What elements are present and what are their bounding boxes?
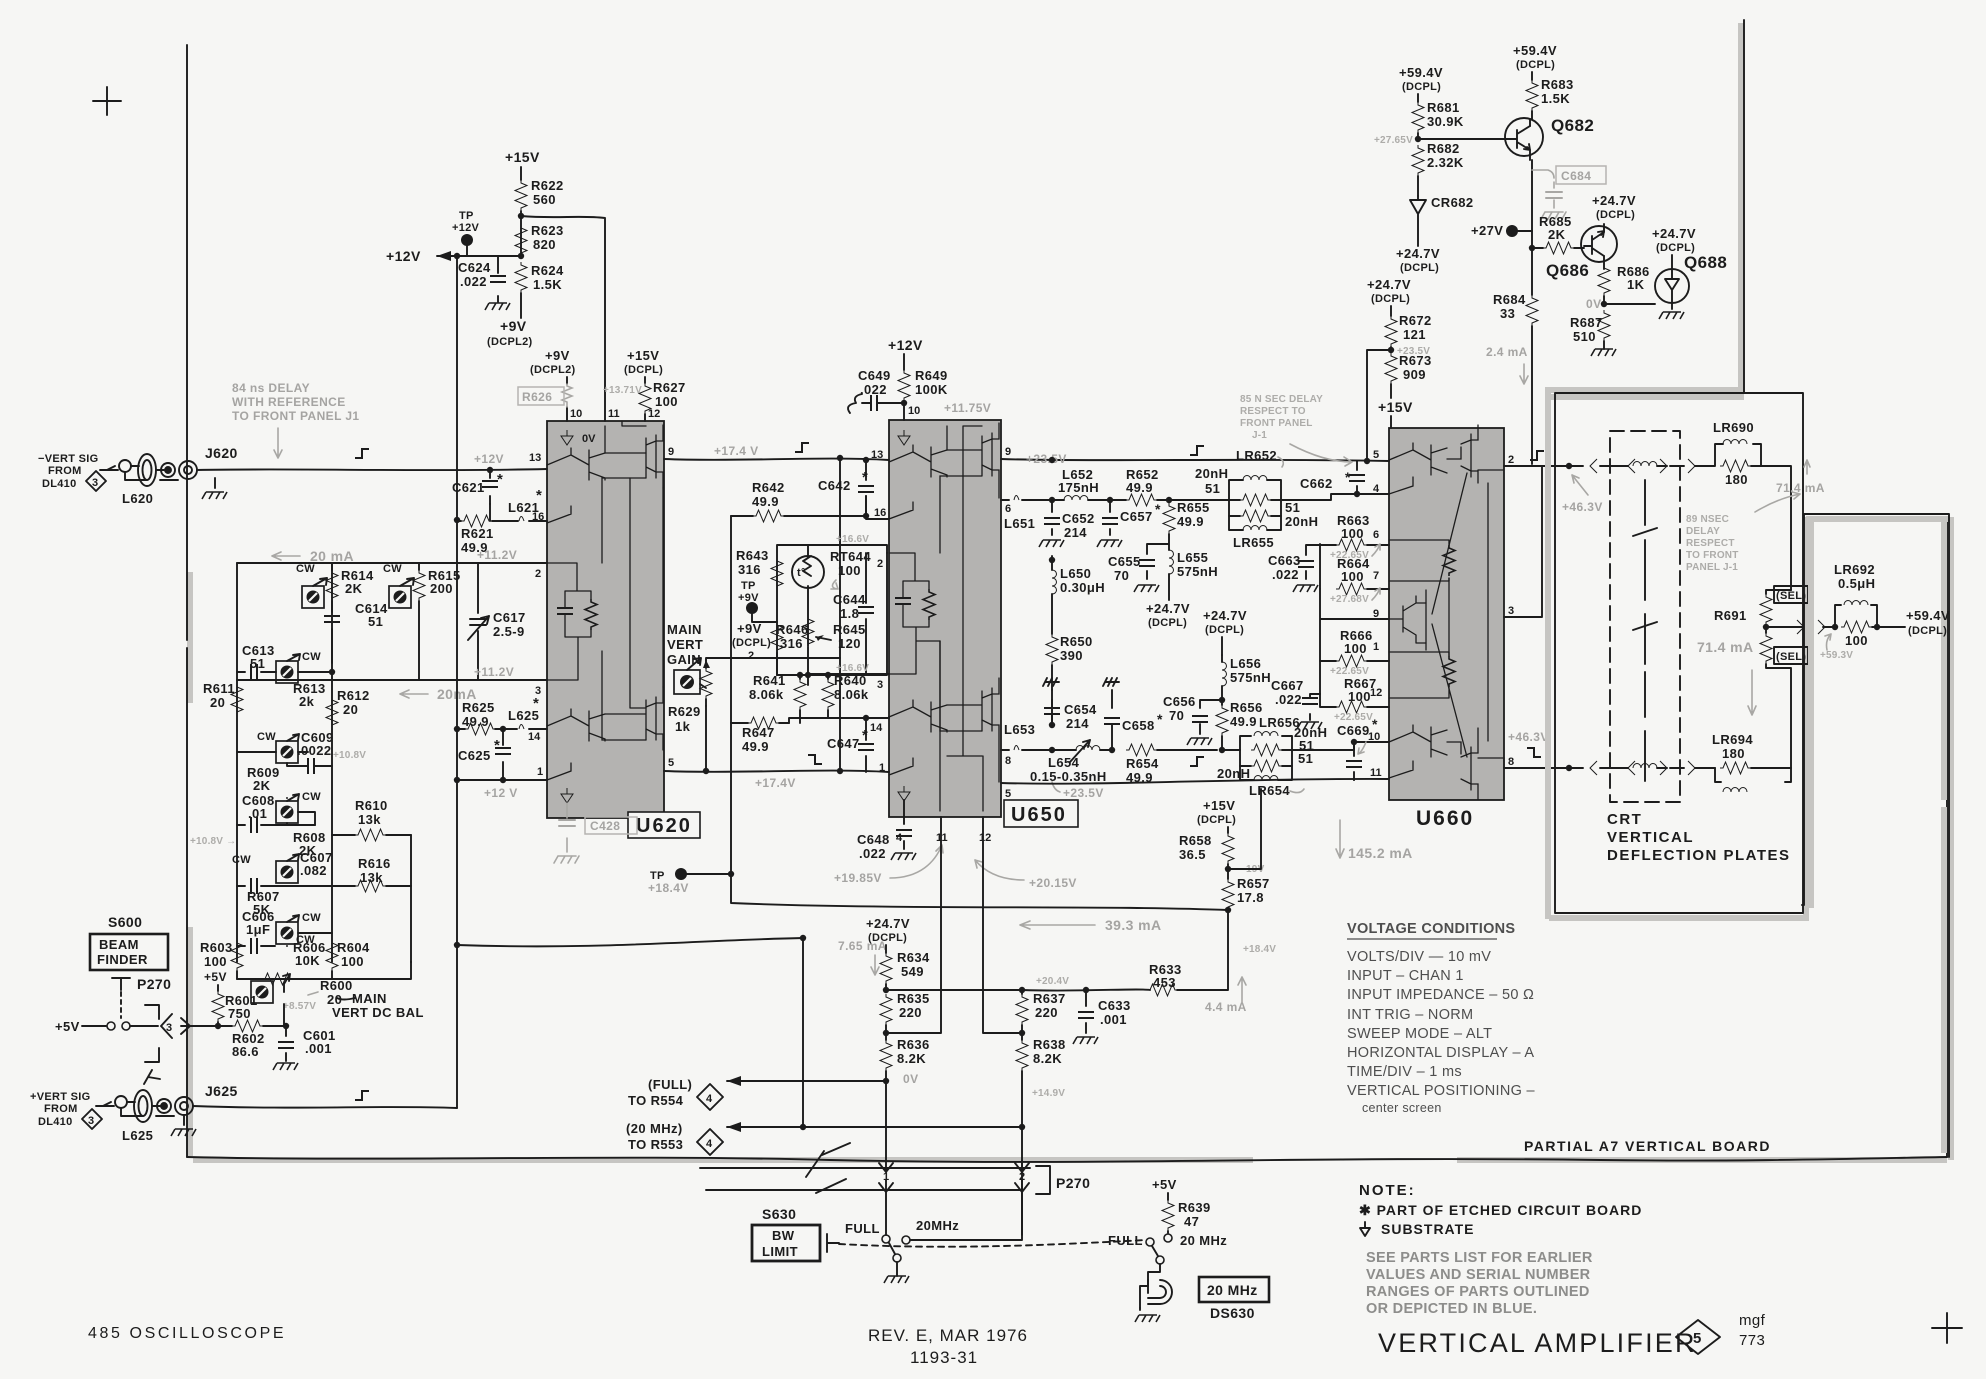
- svg-text:NOTE:: NOTE:: [1359, 1182, 1416, 1199]
- svg-text:+5V: +5V: [55, 1019, 80, 1034]
- svg-text:560: 560: [533, 192, 556, 207]
- svg-text:L625: L625: [122, 1128, 153, 1143]
- svg-text:(DCPL): (DCPL): [1908, 625, 1947, 637]
- right box shadow: [1809, 519, 1946, 1150]
- svg-text:8.06k: 8.06k: [749, 687, 784, 702]
- svg-text:L651: L651: [1004, 516, 1035, 531]
- switch actuator T: [112, 978, 130, 990]
- op-amp U620 body: [547, 421, 664, 818]
- svg-text:+59.4V: +59.4V: [1513, 43, 1557, 58]
- svg-text:R643: R643: [736, 548, 769, 563]
- junction: [1109, 747, 1115, 753]
- svg-text:DELAY: DELAY: [1686, 526, 1720, 537]
- svg-text:200: 200: [430, 581, 453, 596]
- svg-text:J620: J620: [205, 445, 238, 461]
- junction: [500, 777, 506, 783]
- svg-text:PARTIAL A7 VERTICAL BOARD: PARTIAL A7 VERTICAL BOARD: [1524, 1138, 1771, 1154]
- svg-text:CW: CW: [302, 912, 321, 924]
- wire R624 to +9V: [520, 293, 522, 318]
- op-amp U660 body: [1389, 425, 1504, 800]
- svg-text:11: 11: [1370, 767, 1382, 779]
- transistor Q686: [1581, 224, 1617, 269]
- trimmer R614: [302, 586, 324, 608]
- svg-text:.001: .001: [305, 1041, 332, 1056]
- svg-text:+46.3V: +46.3V: [1562, 500, 1603, 514]
- U660 bottom input transistor: [1389, 725, 1447, 778]
- wire from R616/R610 rail to bottom: [410, 961, 412, 963]
- svg-text:VERTICAL: VERTICAL: [1607, 829, 1694, 846]
- wire 24.7 to R634: [885, 945, 887, 953]
- svg-text:20nH: 20nH: [1195, 466, 1228, 481]
- U650 label: [1004, 800, 1078, 827]
- svg-text:+24.7V: +24.7V: [1367, 277, 1411, 292]
- svg-text:51: 51: [1205, 481, 1220, 496]
- BEAM FINDER box: [90, 934, 168, 970]
- svg-text:DL410: DL410: [38, 1116, 73, 1128]
- C684 gray cap: [1532, 170, 1566, 219]
- svg-text:RESPECT TO: RESPECT TO: [1240, 406, 1306, 417]
- svg-text:5: 5: [1005, 788, 1011, 800]
- svg-text:2: 2: [1019, 1171, 1025, 1183]
- junction: [1763, 624, 1769, 630]
- svg-text:0.15-0.35nH: 0.15-0.35nH: [1030, 769, 1107, 784]
- junction on pin9 wire: [837, 455, 843, 461]
- U650 internal middle RC: [889, 553, 929, 598]
- ground under C624: [485, 303, 510, 310]
- junction: [1601, 301, 1607, 307]
- svg-text:+10.8V: +10.8V: [333, 750, 366, 761]
- svg-text:*: *: [494, 737, 500, 754]
- resistor R623: [515, 225, 527, 256]
- svg-text:4: 4: [706, 1093, 713, 1105]
- svg-text:175nH: 175nH: [1058, 480, 1099, 495]
- svg-text:R657: R657: [1237, 876, 1270, 891]
- U620 internal RC middle: [547, 563, 591, 608]
- svg-text:2K: 2K: [1548, 227, 1566, 242]
- svg-text:(DCPL): (DCPL): [1205, 624, 1244, 636]
- svg-text:R656: R656: [1230, 700, 1263, 715]
- junction: [837, 768, 843, 774]
- L650 0.30uH vertical: [1049, 557, 1055, 563]
- svg-text:5: 5: [1373, 449, 1379, 461]
- step at pin2: [1530, 451, 1544, 460]
- gray capacitor C428 under U620: [554, 803, 579, 863]
- svg-text:C654: C654: [1064, 702, 1097, 717]
- junction: [901, 400, 907, 406]
- svg-text:84 ns DELAY: 84 ns DELAY: [232, 381, 310, 395]
- svg-text:+23.5V: +23.5V: [1026, 452, 1067, 466]
- svg-text:4: 4: [706, 1138, 713, 1150]
- svg-text:DS630: DS630: [1210, 1305, 1255, 1321]
- wire U660 pin8 to CRT row: [1504, 767, 1569, 769]
- top plate inductor: [1633, 462, 1657, 467]
- U620 pin numbers: [528, 408, 674, 778]
- step waveform mid top: [795, 443, 809, 452]
- svg-text:85 N SEC DELAY: 85 N SEC DELAY: [1240, 394, 1323, 405]
- svg-text:316: 316: [780, 636, 803, 651]
- R629 wires to pin9/pin5 rail: [706, 658, 840, 771]
- svg-text:51: 51: [1298, 751, 1313, 766]
- svg-text:145.2 mA: 145.2 mA: [1348, 845, 1413, 861]
- svg-text:PANEL J-1: PANEL J-1: [1686, 562, 1738, 573]
- wire C601 node up right: [285, 1025, 287, 1027]
- U660 pin numbers: [1368, 449, 1514, 779]
- wire +15V to R622: [520, 167, 522, 180]
- svg-text:+22.65V: +22.65V: [1334, 712, 1373, 723]
- svg-text:C617: C617: [493, 610, 526, 625]
- svg-text:+20.4V: +20.4V: [1036, 976, 1069, 987]
- step symbol top: [1190, 446, 1204, 455]
- svg-text:8.2K: 8.2K: [897, 1051, 926, 1066]
- svg-text:+19.85V: +19.85V: [834, 871, 882, 885]
- svg-text:TIME/DIV – 1 ms: TIME/DIV – 1 ms: [1347, 1064, 1462, 1080]
- svg-text:17.8: 17.8: [1237, 890, 1264, 905]
- svg-text:2K: 2K: [345, 581, 363, 596]
- svg-text:CW: CW: [383, 563, 402, 575]
- J620 coax jack: [179, 461, 197, 479]
- Q682 emitter down rail: [1531, 160, 1533, 464]
- U620 internal transistor Q-in-top: [547, 448, 605, 523]
- svg-text:20 mA: 20 mA: [310, 548, 354, 564]
- junction pin9 wire at rail: [1049, 457, 1055, 463]
- dashed link to switch: [120, 992, 122, 1018]
- svg-text:9: 9: [1005, 446, 1011, 458]
- svg-text:(DCPL2): (DCPL2): [487, 336, 533, 348]
- LR655 second combo below: [1229, 500, 1281, 530]
- svg-text:+46.3V: +46.3V: [1508, 730, 1549, 744]
- svg-text:R623: R623: [531, 223, 564, 238]
- svg-text:+17.4V: +17.4V: [755, 776, 796, 790]
- svg-text:R611: R611: [203, 681, 235, 696]
- svg-text:0V: 0V: [1586, 297, 1601, 311]
- svg-text:4.4 mA: 4.4 mA: [1205, 1000, 1247, 1014]
- svg-text:L620: L620: [122, 491, 153, 506]
- svg-text:R654: R654: [1126, 756, 1159, 771]
- svg-text:LR655: LR655: [1233, 535, 1274, 550]
- wire pin11 down to R635/R636 node: [886, 817, 941, 1033]
- svg-text:214: 214: [1064, 525, 1087, 540]
- right box outline: [1802, 514, 1949, 1157]
- svg-text:L656: L656: [1230, 656, 1261, 671]
- junction: [825, 672, 831, 678]
- U650 internal bottom transistors: [889, 700, 947, 775]
- svg-text:LR690: LR690: [1713, 420, 1754, 435]
- svg-text:+5V: +5V: [204, 970, 227, 984]
- svg-text:R637: R637: [1033, 991, 1066, 1006]
- svg-text:L653: L653: [1004, 722, 1035, 737]
- registration cross bottom-right: [1932, 1313, 1962, 1343]
- svg-text:14: 14: [870, 722, 883, 734]
- svg-text:0V: 0V: [582, 433, 596, 445]
- U660 input stage top: [1389, 443, 1447, 494]
- svg-text:180: 180: [1725, 472, 1748, 487]
- svg-text:J-1: J-1: [1252, 430, 1267, 441]
- arrow into L625 input: [96, 1102, 114, 1106]
- svg-text:BW: BW: [772, 1228, 795, 1243]
- svg-text:+16.6V: +16.6V: [836, 534, 869, 545]
- junction: [1364, 458, 1370, 464]
- svg-text:CW: CW: [302, 651, 321, 663]
- svg-text:C624: C624: [458, 260, 491, 275]
- svg-text:575nH: 575nH: [1230, 670, 1271, 685]
- J625 wire to +12V rail: [193, 1106, 457, 1108]
- step waveform near J620: [355, 449, 369, 458]
- junction: [1388, 347, 1394, 353]
- svg-text:FRONT PANEL: FRONT PANEL: [1240, 418, 1313, 429]
- svg-text:+12V: +12V: [452, 222, 480, 234]
- svg-text:INPUT – CHAN 1: INPUT – CHAN 1: [1347, 968, 1464, 984]
- +23.5V gray under U650 pin5: [1052, 782, 1060, 792]
- junction: [1529, 245, 1535, 251]
- svg-text:FULL: FULL: [845, 1221, 880, 1236]
- svg-text:SWEEP MODE – ALT: SWEEP MODE – ALT: [1347, 1026, 1492, 1042]
- svg-text:C633: C633: [1098, 998, 1131, 1013]
- svg-text:TP: TP: [741, 580, 756, 592]
- svg-text:9: 9: [668, 446, 674, 458]
- U650 internal top right transistor pair: [982, 423, 999, 498]
- svg-text:2.32K: 2.32K: [1427, 155, 1464, 170]
- svg-text:TO R553: TO R553: [628, 1137, 683, 1152]
- svg-text:20MHz: 20MHz: [916, 1218, 959, 1233]
- U660 internal resistor pin6-pin7: [1389, 540, 1449, 581]
- svg-text:VERT: VERT: [667, 637, 703, 652]
- svg-text:8.2K: 8.2K: [1033, 1051, 1062, 1066]
- wire LR654 to C669 and pin10: [1292, 742, 1389, 750]
- wire U650 pin9 to U660 pin5: [1001, 459, 1389, 461]
- svg-text:5: 5: [668, 757, 674, 769]
- svg-text:+59.3V: +59.3V: [1820, 650, 1853, 661]
- svg-text:+17.4 V: +17.4 V: [714, 444, 759, 458]
- svg-text:R636: R636: [897, 1037, 930, 1052]
- wire U620 pin9 to U650 pin13: [664, 459, 889, 460]
- C652 214 shunt: [1049, 497, 1055, 503]
- svg-text:1.5K: 1.5K: [533, 277, 562, 292]
- registration cross top-left: [93, 87, 121, 115]
- U620 internal bottom transistors: [547, 709, 605, 780]
- svg-text:FROM: FROM: [44, 1103, 78, 1115]
- svg-text:R612: R612: [337, 688, 370, 703]
- svg-text:*: *: [1155, 501, 1161, 517]
- svg-text:FULL: FULL: [1108, 1233, 1143, 1248]
- node under R623: [518, 253, 524, 259]
- svg-text:4: 4: [896, 832, 903, 844]
- svg-text:+15V: +15V: [1203, 798, 1235, 813]
- svg-text:VERT DC BAL: VERT DC BAL: [332, 1005, 424, 1020]
- svg-text:+20.15V: +20.15V: [1029, 876, 1077, 890]
- input attenuator L620 (ferrite): [119, 454, 178, 486]
- svg-text:+15V: +15V: [1378, 399, 1413, 415]
- svg-text:R600: R600: [320, 978, 353, 993]
- svg-text:49.9: 49.9: [752, 494, 779, 509]
- svg-text:549: 549: [901, 964, 924, 979]
- svg-text:+24.7V: +24.7V: [1396, 246, 1440, 261]
- svg-text:390: 390: [1060, 648, 1083, 663]
- J625 coax jack: [175, 1097, 193, 1115]
- svg-text:R645: R645: [833, 622, 866, 637]
- svg-text:13k: 13k: [358, 812, 381, 827]
- svg-text:C663: C663: [1268, 553, 1301, 568]
- junction: [805, 672, 811, 678]
- svg-text:(DCPL): (DCPL): [1400, 262, 1439, 274]
- svg-text:C648: C648: [857, 832, 890, 847]
- svg-text:U620: U620: [636, 815, 692, 837]
- svg-text:100: 100: [655, 394, 678, 409]
- svg-text:R626: R626: [522, 390, 552, 404]
- svg-text:+12V: +12V: [386, 248, 421, 264]
- svg-text:30.9K: 30.9K: [1427, 114, 1464, 129]
- svg-text:C642: C642: [818, 478, 851, 493]
- U650 pin 10 substrate: [898, 430, 910, 445]
- pin2 wire: [237, 562, 547, 564]
- svg-text:C662: C662: [1300, 476, 1333, 491]
- svg-text:R650: R650: [1060, 634, 1093, 649]
- wire R622 to node: [520, 211, 522, 256]
- svg-text:CW: CW: [296, 563, 315, 575]
- svg-text:Q688: Q688: [1684, 253, 1727, 272]
- node R622/R623: [518, 213, 524, 219]
- svg-text:2.5-9: 2.5-9: [493, 624, 525, 639]
- svg-text:R655: R655: [1177, 500, 1210, 515]
- svg-text:R634: R634: [897, 950, 930, 965]
- SEE PARTS LIST gray: [1366, 1250, 1593, 1317]
- transistor Q682: [1505, 118, 1543, 160]
- junction: [728, 871, 734, 877]
- svg-text:R622: R622: [531, 178, 564, 193]
- svg-text:L655: L655: [1177, 550, 1208, 565]
- R629 pot resistor: [700, 668, 712, 699]
- svg-text:51: 51: [368, 614, 383, 629]
- svg-text:S600: S600: [108, 914, 142, 930]
- svg-text:*: *: [1157, 711, 1163, 727]
- resistor R624: [515, 262, 527, 293]
- svg-text:(DCPL): (DCPL): [732, 637, 771, 649]
- svg-text:INPUT IMPEDANCE – 50 Ω: INPUT IMPEDANCE – 50 Ω: [1347, 987, 1534, 1003]
- L656 575nH vertical: [1219, 697, 1225, 703]
- U620 substrate pin 4: [561, 788, 573, 803]
- L654 variable inductor: [1049, 747, 1055, 753]
- svg-text:C644: C644: [833, 592, 866, 607]
- svg-text:220: 220: [1035, 1005, 1058, 1020]
- svg-text:(DCPL): (DCPL): [1371, 293, 1410, 305]
- svg-text:2: 2: [877, 558, 883, 570]
- step waveform mid bottom: [808, 755, 822, 764]
- R655 49.9 vertical: [1166, 497, 1172, 503]
- U620 internal wires top: [602, 453, 646, 563]
- svg-text:+18.4V: +18.4V: [1243, 944, 1276, 955]
- svg-text:S630: S630: [762, 1206, 796, 1222]
- svg-text:*: *: [1372, 716, 1378, 732]
- bottom wire of inner loop: [777, 553, 887, 685]
- junction: [454, 253, 460, 259]
- switch contacts: [82, 1025, 106, 1027]
- svg-text:.022: .022: [1275, 692, 1302, 707]
- svg-text:+13.71V: +13.71V: [603, 385, 642, 396]
- svg-text:+14.9V: +14.9V: [1032, 1088, 1065, 1099]
- svg-text:10: 10: [908, 405, 920, 417]
- svg-text:VALUES AND SERIAL NUMBER: VALUES AND SERIAL NUMBER: [1366, 1267, 1591, 1283]
- svg-text:+15V: +15V: [505, 149, 540, 165]
- svg-text:3: 3: [88, 1115, 94, 1127]
- svg-text:485 OSCILLOSCOPE: 485 OSCILLOSCOPE: [88, 1325, 286, 1342]
- svg-text:(DCPL): (DCPL): [1197, 814, 1236, 826]
- svg-text:+24.7V: +24.7V: [1146, 601, 1190, 616]
- svg-text:SEE PARTS LIST FOR EARLIER: SEE PARTS LIST FOR EARLIER: [1366, 1250, 1593, 1266]
- svg-text:.082: .082: [300, 863, 327, 878]
- svg-text:C669: C669: [1337, 723, 1370, 738]
- svg-text:820: 820: [533, 237, 556, 252]
- svg-text:(DCPL): (DCPL): [1516, 59, 1555, 71]
- svg-text:C428: C428: [590, 819, 620, 833]
- board outline left edge: [186, 45, 188, 1157]
- svg-text:1: 1: [537, 766, 543, 778]
- second low wire from +12V rail to x=803: [457, 938, 803, 1127]
- U620 label: [628, 812, 700, 838]
- svg-text:89 NSEC: 89 NSEC: [1686, 514, 1729, 525]
- svg-text:R635: R635: [897, 991, 930, 1006]
- svg-text:CW: CW: [232, 854, 251, 866]
- svg-text:C647: C647: [827, 736, 860, 751]
- svg-text:R682: R682: [1427, 141, 1460, 156]
- svg-text:+15V: +15V: [627, 348, 659, 363]
- svg-text:6: 6: [1373, 529, 1379, 541]
- svg-text:16: 16: [874, 507, 886, 519]
- capacitor C624: [497, 256, 499, 302]
- 20 mA gray arrow mid: [400, 690, 428, 698]
- board outline top-right notch: [1548, 26, 1741, 390]
- svg-text:+59.4V: +59.4V: [1906, 608, 1950, 623]
- svg-text:(SEL): (SEL): [1776, 590, 1806, 602]
- svg-text:+11.2V: +11.2V: [477, 548, 517, 562]
- svg-text:1: 1: [883, 1171, 889, 1183]
- svg-text:20nH: 20nH: [1217, 766, 1250, 781]
- BW LIMIT box: [752, 1225, 820, 1261]
- U660 bottom right output transistor: [1447, 728, 1504, 799]
- svg-text:R681: R681: [1427, 100, 1460, 115]
- 39.3 mA gray arrow: [1020, 921, 1095, 929]
- svg-text:CW: CW: [302, 791, 321, 803]
- svg-text:100: 100: [204, 954, 227, 969]
- svg-text:6: 6: [1005, 503, 1011, 515]
- svg-text:0.30μH: 0.30μH: [1060, 580, 1105, 595]
- svg-text:.022: .022: [859, 846, 886, 861]
- svg-text:1μF: 1μF: [246, 922, 270, 937]
- junction at C621: [487, 467, 493, 473]
- svg-text:+8.57V: +8.57V: [283, 1001, 316, 1012]
- base wire to Q682: [1418, 138, 1507, 140]
- svg-text:RESPECT: RESPECT: [1686, 538, 1735, 549]
- svg-text:0V: 0V: [903, 1072, 918, 1086]
- svg-text:C667: C667: [1271, 678, 1304, 693]
- +12V rail vertical: [456, 256, 458, 1108]
- svg-text:R625: R625: [462, 700, 495, 715]
- wire node to U620 pin11 feed: [521, 216, 605, 421]
- svg-text:R638: R638: [1033, 1037, 1066, 1052]
- svg-text:R639: R639: [1178, 1200, 1211, 1215]
- junction: [1083, 987, 1089, 993]
- arrow into L620: [100, 466, 118, 470]
- svg-text:1: 1: [1373, 641, 1379, 653]
- svg-text:0.5μH: 0.5μH: [1838, 576, 1875, 591]
- junction: [329, 669, 335, 675]
- svg-text:+24.7V: +24.7V: [1652, 226, 1696, 241]
- svg-text:MAIN: MAIN: [667, 622, 702, 637]
- svg-text:100: 100: [1344, 641, 1367, 656]
- svg-text:L621: L621: [508, 500, 539, 515]
- svg-text:33: 33: [1500, 306, 1515, 321]
- wire U650 pin5 to U660 pin11: [1001, 779, 1389, 784]
- svg-text:✱ PART OF ETCHED CIRCUIT BOARD: ✱ PART OF ETCHED CIRCUIT BOARD: [1359, 1202, 1642, 1218]
- svg-text:316: 316: [738, 562, 761, 577]
